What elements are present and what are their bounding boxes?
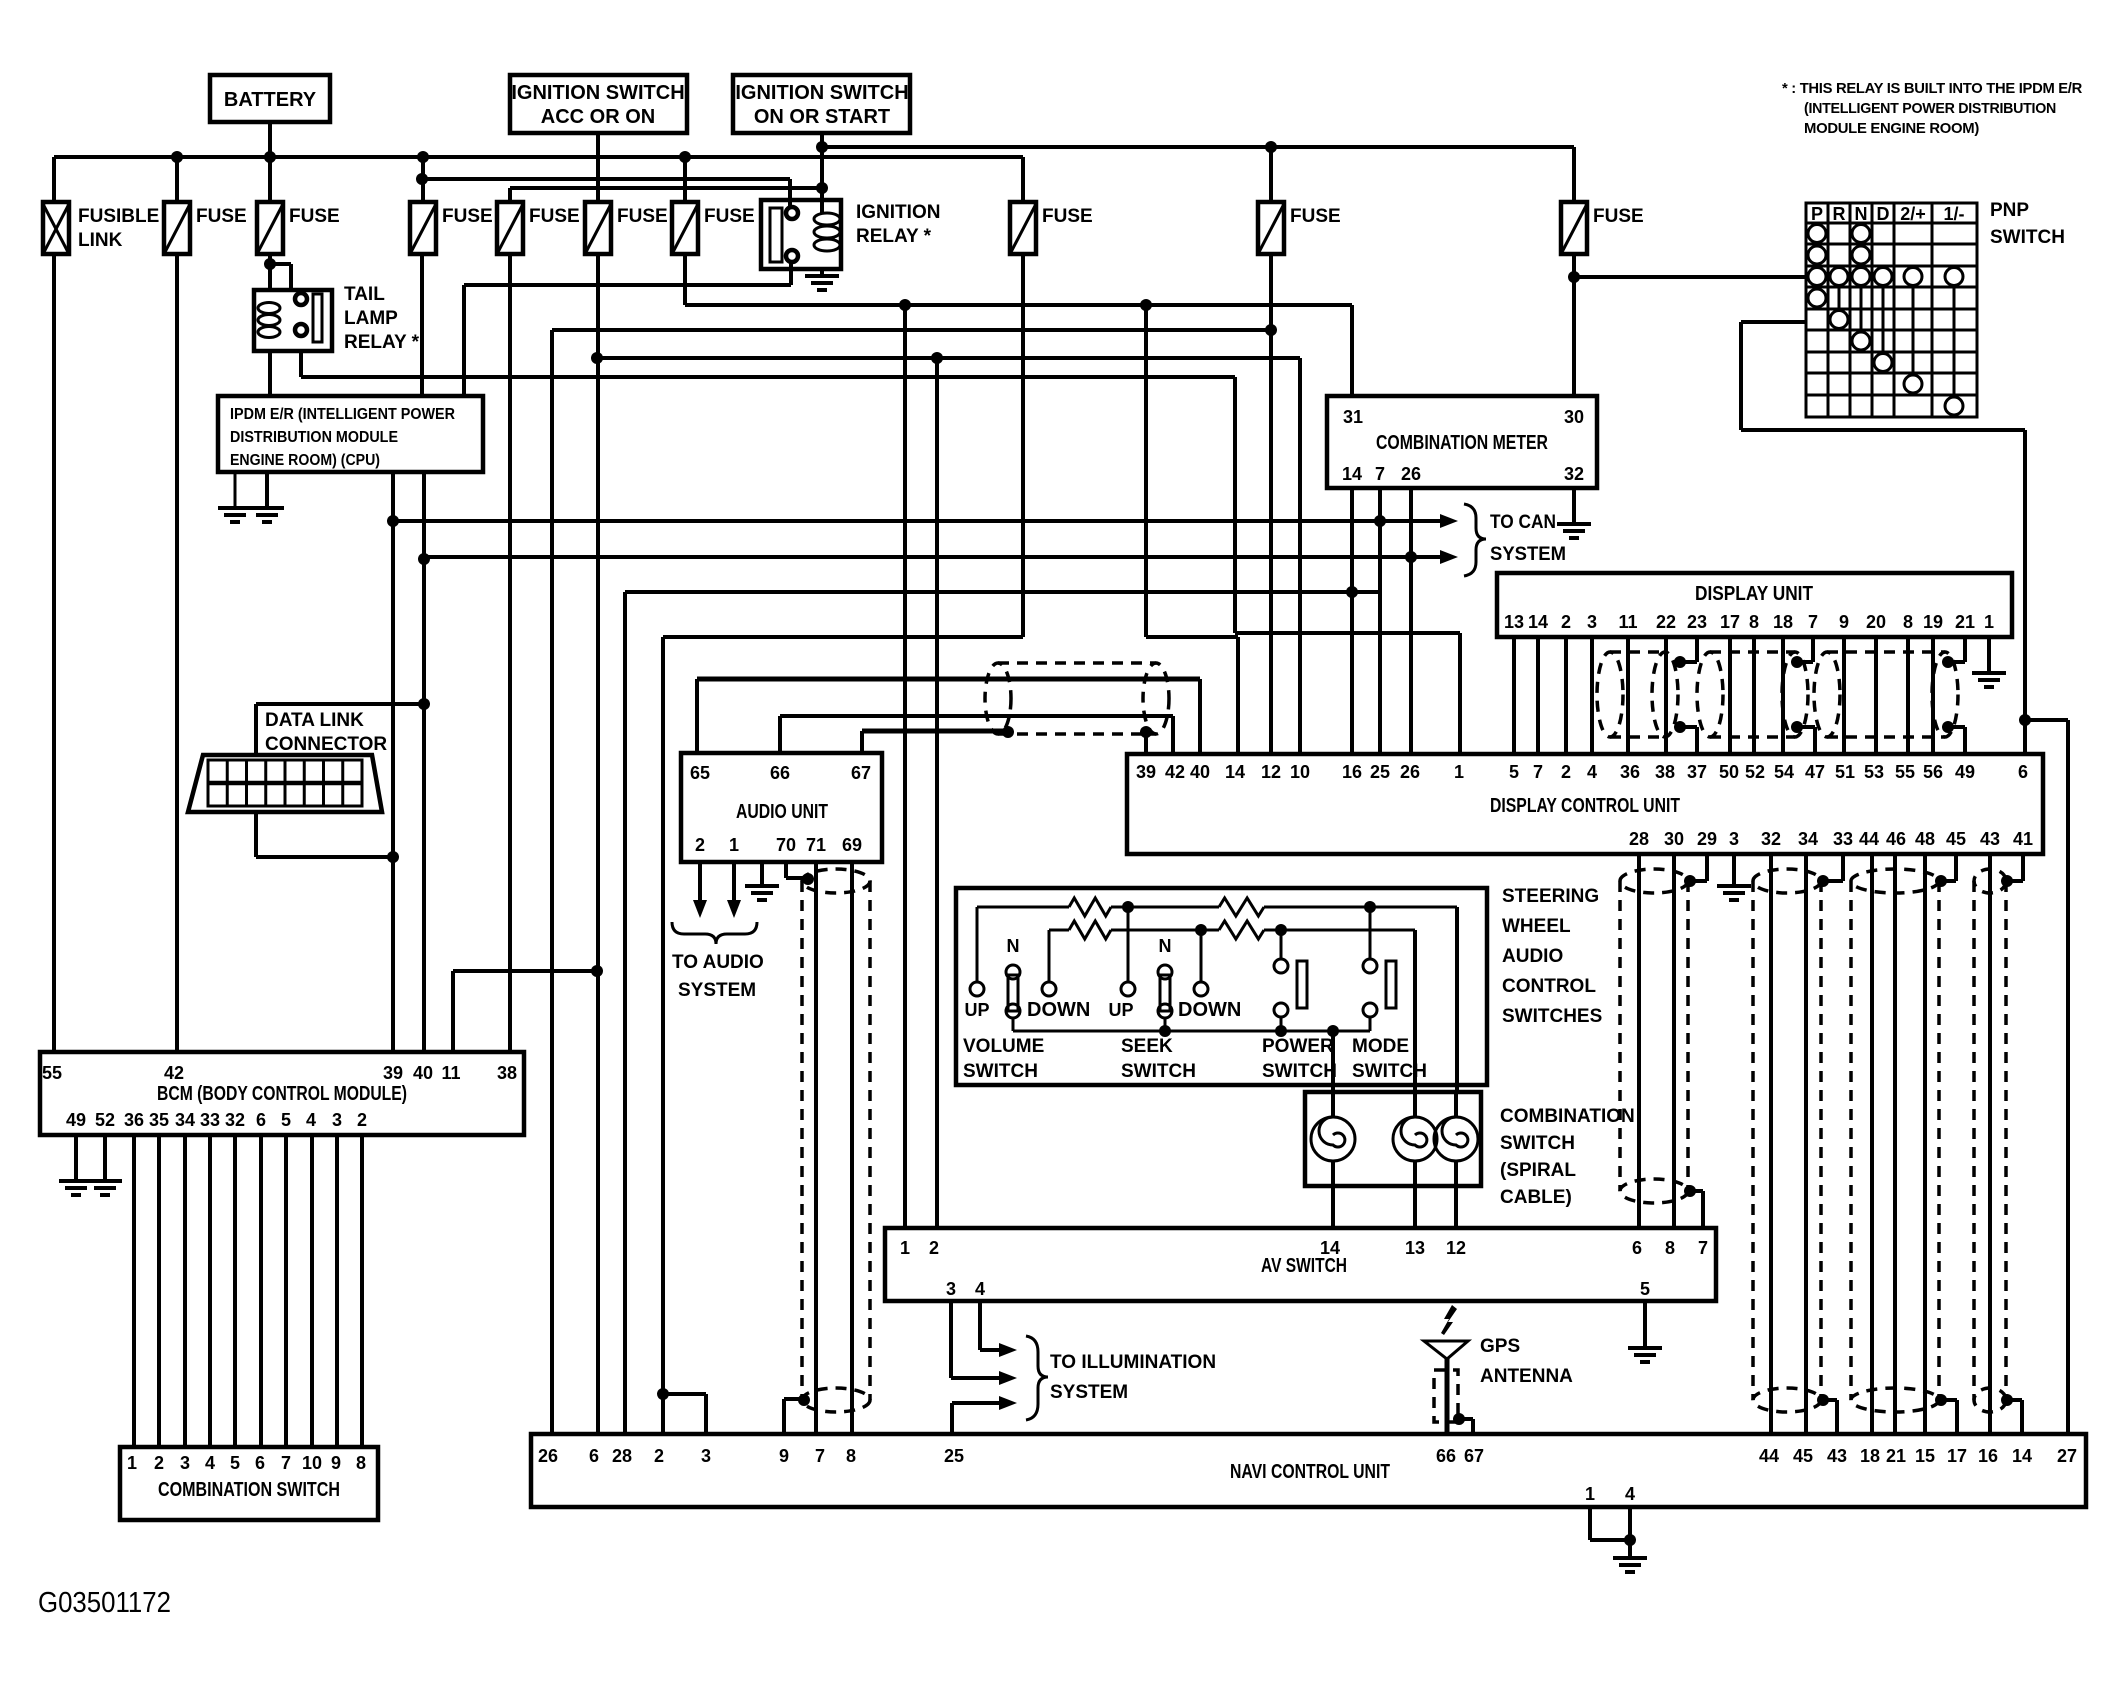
svg-text:CABLE): CABLE) <box>1500 1187 1572 1208</box>
svg-text:POWER: POWER <box>1262 1036 1334 1057</box>
svg-text:69: 69 <box>842 835 862 855</box>
ground: IPDM pin left <box>218 472 252 522</box>
svg-text:COMBINATION: COMBINATION <box>1500 1106 1635 1127</box>
svg-text:FUSE: FUSE <box>442 206 493 227</box>
wire: switch out to spiral 14 <box>1331 1031 1335 1092</box>
svg-text:2: 2 <box>654 1446 664 1466</box>
wire: audio 1 to audio system <box>727 862 741 918</box>
svg-text:28: 28 <box>1629 829 1649 849</box>
wire: fuse F6 net y305 (meter 31, AV 1, DCU 14) <box>685 254 1352 396</box>
svg-text:40: 40 <box>1190 762 1210 782</box>
shielded cable (audio to DCU) <box>985 663 1169 738</box>
svg-text:6: 6 <box>256 1110 266 1130</box>
svg-text:56: 56 <box>1923 762 1943 782</box>
wire: tail-relay net to DCU 1 <box>1235 377 1460 754</box>
wire: shield to DCU 39 <box>1144 732 1148 754</box>
svg-text:1: 1 <box>1984 612 1994 632</box>
svg-text:SWITCH: SWITCH <box>1121 1061 1196 1082</box>
svg-text:21: 21 <box>1955 612 1975 632</box>
svg-text:2/+: 2/+ <box>1900 204 1926 224</box>
wire: IPDM to BCM 40 (CAN L vertical) <box>418 472 430 1052</box>
BCM (body control module) <box>40 1052 524 1135</box>
svg-text:FUSE: FUSE <box>704 206 755 227</box>
svg-text:48: 48 <box>1915 829 1935 849</box>
shielded cable 2 (display 17,8,18 - DCU 50,52,54) <box>1697 637 1808 754</box>
combination meter <box>1327 396 1597 488</box>
svg-text:N: N <box>1855 204 1868 224</box>
steering wheel audio control switches <box>956 888 1487 1085</box>
wire: bus y188 ON/START to fuse510 <box>510 182 828 194</box>
ignition switch ACC OR ON <box>510 75 687 133</box>
svg-text:8: 8 <box>1665 1238 1675 1258</box>
svg-text:47: 47 <box>1805 762 1825 782</box>
svg-text:5: 5 <box>1509 762 1519 782</box>
svg-text:15: 15 <box>1915 1446 1935 1466</box>
ignition switch ON OR START <box>733 75 910 133</box>
svg-text:43: 43 <box>1980 829 2000 849</box>
wire: audio 70 to shield <box>786 862 814 885</box>
wire: PNP output to DCU 6 / NAVI 27 <box>1741 322 2068 1434</box>
combination switch (spiral cable) <box>1305 1092 1481 1228</box>
svg-text:12: 12 <box>1261 762 1281 782</box>
wire: relay output y285 to IPDM <box>464 262 791 396</box>
svg-text:TAIL: TAIL <box>344 284 385 305</box>
ground: BCM 52 <box>88 1135 122 1195</box>
ground: IPDM pin right <box>250 472 284 522</box>
ignition relay (built into IPDM) <box>761 179 940 269</box>
svg-text:23: 23 <box>1687 612 1707 632</box>
svg-text:FUSE: FUSE <box>617 206 668 227</box>
svg-text:33: 33 <box>1833 829 1853 849</box>
svg-text:52: 52 <box>1745 762 1765 782</box>
svg-text:27: 27 <box>2057 1446 2077 1466</box>
svg-text:37: 37 <box>1687 762 1707 782</box>
svg-text:30: 30 <box>1664 829 1684 849</box>
svg-text:FUSE: FUSE <box>529 206 580 227</box>
svg-text:54: 54 <box>1774 762 1794 782</box>
fuse F7 (to NAVI 2) <box>1010 157 1093 254</box>
fusible link <box>43 157 159 254</box>
wire: fusible link to BCM 55 <box>52 254 56 1052</box>
svg-text:SWITCHES: SWITCHES <box>1502 1006 1602 1027</box>
wire: fuse to tail lamp relay <box>264 254 291 290</box>
svg-text:DISTRIBUTION MODULE: DISTRIBUTION MODULE <box>230 429 398 446</box>
shielded cable 1 (display 11,22 - DCU 36,38) <box>1597 637 1678 754</box>
svg-text:26: 26 <box>1401 464 1421 484</box>
ground: display 1 <box>1972 637 2006 687</box>
svg-text:16: 16 <box>1342 762 1362 782</box>
svg-text:10: 10 <box>302 1453 322 1473</box>
svg-text:DOWN: DOWN <box>1027 999 1090 1021</box>
svg-text:66: 66 <box>1436 1446 1456 1466</box>
svg-text:AUDIO: AUDIO <box>1502 946 1563 967</box>
wire: ACC net vertical to NAVI 6 <box>591 254 603 1434</box>
svg-text:4: 4 <box>306 1110 316 1130</box>
svg-text:GPS: GPS <box>1480 1336 1520 1357</box>
wire: audio 2 to audio system <box>693 862 707 918</box>
battery <box>210 75 330 122</box>
svg-text:MODE: MODE <box>1352 1036 1409 1057</box>
svg-text:45: 45 <box>1946 829 1966 849</box>
svg-text:38: 38 <box>497 1063 517 1083</box>
shielded cable (audio 71/69 down to NAVI) <box>798 869 870 1412</box>
svg-text:1: 1 <box>900 1238 910 1258</box>
label: steering wheel audio control switches <box>1502 886 1602 1027</box>
svg-text:70: 70 <box>776 835 796 855</box>
svg-text:3: 3 <box>332 1110 342 1130</box>
svg-text:COMBINATION METER: COMBINATION METER <box>1376 432 1548 454</box>
svg-text:1: 1 <box>1585 1484 1595 1504</box>
wire: fuse F7 to NAVI 2 <box>657 254 1023 1434</box>
svg-text:LINK: LINK <box>78 230 123 251</box>
svg-text:3: 3 <box>1587 612 1597 632</box>
audio unit <box>681 753 882 862</box>
GPS coax shield <box>1434 1370 1473 1434</box>
svg-text:DISPLAY CONTROL UNIT: DISPLAY CONTROL UNIT <box>1490 795 1680 817</box>
wire: meter 14 to DCU 16 <box>1346 488 1358 754</box>
svg-text:SEEK: SEEK <box>1121 1036 1173 1057</box>
svg-text:SYSTEM: SYSTEM <box>1490 544 1566 565</box>
fuse F5 (ACC) <box>585 202 668 254</box>
ground: AV 5 <box>1628 1301 1662 1362</box>
svg-text:14: 14 <box>2012 1446 2032 1466</box>
svg-text:4: 4 <box>205 1453 215 1473</box>
wire: display 21 shield to DCU 49 <box>1942 637 1965 754</box>
wire: AV 2 feed <box>935 358 939 1228</box>
svg-text:13: 13 <box>1405 1238 1425 1258</box>
NAVI control unit <box>531 1434 2086 1507</box>
fuse F2 (to tail lamp relay) <box>257 157 340 254</box>
svg-text:5: 5 <box>230 1453 240 1473</box>
svg-text:45: 45 <box>1793 1446 1813 1466</box>
svg-text:6: 6 <box>2018 762 2028 782</box>
svg-text:17: 17 <box>1947 1446 1967 1466</box>
shielded cable D (DCU 43 - NAVI 16) <box>1974 854 2023 1434</box>
svg-text:WHEEL: WHEEL <box>1502 916 1571 937</box>
wire: DLC to CAN H <box>256 812 393 857</box>
svg-text:42: 42 <box>1165 762 1185 782</box>
svg-text:29: 29 <box>1697 829 1717 849</box>
wire: BCM 11 feed <box>453 971 597 1052</box>
svg-text:7: 7 <box>1375 464 1385 484</box>
svg-text:65: 65 <box>690 763 710 783</box>
ground: DCU 3 <box>1717 854 1751 900</box>
GPS antenna <box>1424 1305 1573 1434</box>
svg-text:NAVI CONTROL UNIT: NAVI CONTROL UNIT <box>1230 1461 1390 1483</box>
svg-text:1: 1 <box>127 1453 137 1473</box>
svg-text:36: 36 <box>124 1110 144 1130</box>
svg-text:ANTENNA: ANTENNA <box>1480 1366 1573 1387</box>
wire: DLC to CAN L <box>256 704 424 755</box>
fuse F1 (to BCM 42) <box>164 157 247 254</box>
svg-text:42: 42 <box>164 1063 184 1083</box>
svg-text:17: 17 <box>1720 612 1740 632</box>
svg-text:LAMP: LAMP <box>344 308 398 329</box>
svg-text:SWITCH: SWITCH <box>1262 1061 1337 1082</box>
wire: audio 69 to NAVI 8 <box>850 862 854 1434</box>
svg-text:IGNITION SWITCH: IGNITION SWITCH <box>735 82 908 104</box>
svg-text:7: 7 <box>1808 612 1818 632</box>
shielded cable B (DCU 32,34 - NAVI 44,45) <box>1753 854 1843 1434</box>
svg-text:N: N <box>1159 936 1172 956</box>
shielded cable A (DCU 28,30 - AV 6,8) <box>1620 854 1707 1228</box>
wire: bus y179 to ignition relay <box>416 173 790 185</box>
svg-text:UP: UP <box>1108 1000 1133 1020</box>
svg-text:49: 49 <box>1955 762 1975 782</box>
svg-text:7: 7 <box>815 1446 825 1466</box>
svg-text:32: 32 <box>225 1110 245 1130</box>
svg-text:SWITCH: SWITCH <box>963 1061 1038 1082</box>
svg-text:8: 8 <box>846 1446 856 1466</box>
svg-text:53: 53 <box>1864 762 1884 782</box>
svg-text:STEERING: STEERING <box>1502 886 1599 907</box>
svg-text:ON OR START: ON OR START <box>754 106 890 128</box>
svg-text:67: 67 <box>1464 1446 1484 1466</box>
svg-text:66: 66 <box>770 763 790 783</box>
wire: display 23 shield to DCU 37 <box>1674 637 1697 754</box>
ground: audio unit <box>745 862 779 900</box>
svg-text:CONNECTOR: CONNECTOR <box>265 734 387 755</box>
svg-text:BATTERY: BATTERY <box>224 89 317 111</box>
svg-text:43: 43 <box>1827 1446 1847 1466</box>
svg-text:4: 4 <box>975 1279 985 1299</box>
svg-text:ENGINE ROOM) (CPU): ENGINE ROOM) (CPU) <box>230 452 380 469</box>
svg-text:N: N <box>1007 936 1020 956</box>
wire: audio 66 to DCU 42 <box>780 716 1173 754</box>
svg-text:5: 5 <box>1640 1279 1650 1299</box>
svg-text:38: 38 <box>1655 762 1675 782</box>
wire: fuse F9 to meter 30 and PNP <box>1568 254 1806 396</box>
shielded cable 3 (display 9,20,8,19 - DCU 51,53,55,56) <box>1814 637 1958 754</box>
fuse F6 (to meter 31) <box>672 157 755 254</box>
label: combination switch spiral cable <box>1500 1106 1635 1208</box>
svg-text:9: 9 <box>779 1446 789 1466</box>
wire: AV 1 feed <box>903 305 907 1228</box>
svg-text:ACC OR ON: ACC OR ON <box>541 106 655 128</box>
svg-text:COMBINATION SWITCH: COMBINATION SWITCH <box>158 1479 340 1501</box>
svg-text:2: 2 <box>1561 762 1571 782</box>
wire: display 7 shield to DCU 47 <box>1791 637 1815 754</box>
note: relay built into IPDM E/R <box>1782 80 2082 137</box>
wire: ignition ON/START drop <box>820 133 824 205</box>
wire: NAVI 2-3 jumper <box>663 1394 706 1434</box>
svg-text:33: 33 <box>200 1110 220 1130</box>
svg-text:IPDM E/R (INTELLIGENT POWER: IPDM E/R (INTELLIGENT POWER <box>230 406 455 423</box>
svg-text:4: 4 <box>1587 762 1597 782</box>
svg-text:46: 46 <box>1886 829 1906 849</box>
svg-text:26: 26 <box>538 1446 558 1466</box>
figure number G03501172 <box>38 1587 171 1619</box>
svg-text:DATA LINK: DATA LINK <box>265 710 364 731</box>
svg-text:VOLUME: VOLUME <box>963 1036 1044 1057</box>
svg-text:3: 3 <box>180 1453 190 1473</box>
svg-text:BCM (BODY CONTROL MODULE): BCM (BODY CONTROL MODULE) <box>157 1083 407 1105</box>
svg-text:44: 44 <box>1859 829 1879 849</box>
svg-text:FUSE: FUSE <box>1290 206 1341 227</box>
svg-text:SYSTEM: SYSTEM <box>1050 1382 1128 1403</box>
wire: AV 3 to illumination <box>951 1301 1017 1385</box>
svg-text:CONTROL: CONTROL <box>1502 976 1596 997</box>
wire: NAVI 1-4 jumper <box>1590 1507 1636 1558</box>
svg-text:RELAY *: RELAY * <box>856 226 932 247</box>
svg-text:36: 36 <box>1620 762 1640 782</box>
AV switch <box>885 1228 1716 1301</box>
wire: switch out to spiral 12 <box>1455 907 1459 1092</box>
svg-text:6: 6 <box>589 1446 599 1466</box>
svg-text:FUSE: FUSE <box>196 206 247 227</box>
shielded cable C (DCU 44,46,48 - NAVI 18,21,15) <box>1851 854 1957 1434</box>
PNP switch grid <box>1806 200 2065 417</box>
svg-text:18: 18 <box>1773 612 1793 632</box>
svg-text:19: 19 <box>1923 612 1943 632</box>
svg-text:34: 34 <box>1798 829 1818 849</box>
svg-text:2: 2 <box>154 1453 164 1473</box>
svg-text:8: 8 <box>1749 612 1759 632</box>
svg-text:FUSE: FUSE <box>289 206 340 227</box>
svg-text:G03501172: G03501172 <box>38 1587 171 1619</box>
svg-text:7: 7 <box>1698 1238 1708 1258</box>
wire: audio 67 shield drain <box>862 731 1008 753</box>
fuse F9 (to meter 30 / PNP) <box>1561 147 1644 254</box>
wire: fuse F8 to DCU 12 and NAVI 26 <box>552 254 1277 1434</box>
data link connector <box>188 710 387 812</box>
svg-text:22: 22 <box>1656 612 1676 632</box>
brace and label TO ILLUMINATION SYSTEM <box>1026 1336 1216 1420</box>
wire: audio 71 to NAVI 7 <box>814 862 818 1434</box>
svg-text:25: 25 <box>944 1446 964 1466</box>
wire: fuse F4 to BCM 38 <box>508 254 512 1052</box>
svg-text:(SPIRAL: (SPIRAL <box>1500 1160 1576 1181</box>
wire: y358 line (AV 2, DCU 10) <box>597 352 1300 754</box>
svg-text:RELAY *: RELAY * <box>344 332 420 353</box>
svg-text:2: 2 <box>695 835 705 855</box>
wire: CAN L line y557 <box>424 550 1458 564</box>
svg-text:39: 39 <box>383 1063 403 1083</box>
svg-text:SWITCH: SWITCH <box>1990 227 2065 248</box>
ground: meter pin 32 <box>1557 488 1591 538</box>
svg-text:67: 67 <box>851 763 871 783</box>
svg-text:14: 14 <box>1320 1238 1340 1258</box>
brace and label TO CAN SYSTEM <box>1464 504 1566 576</box>
display unit <box>1497 573 2012 637</box>
svg-text:32: 32 <box>1564 464 1584 484</box>
svg-text:8: 8 <box>356 1453 366 1473</box>
wire: switch out to spiral 13 <box>1413 930 1417 1092</box>
svg-text:UP: UP <box>964 1000 989 1020</box>
wire: AV 4 to illumination <box>980 1301 1017 1357</box>
wire: audio 65 to DCU 40 <box>697 679 1200 754</box>
svg-text:26: 26 <box>1400 762 1420 782</box>
svg-text:13: 13 <box>1504 612 1524 632</box>
svg-text:3: 3 <box>701 1446 711 1466</box>
wire: meter 26 to DCU 26 <box>1409 488 1413 754</box>
svg-text:21: 21 <box>1886 1446 1906 1466</box>
IPDM E/R box <box>218 254 483 472</box>
svg-text:P: P <box>1811 204 1823 224</box>
svg-text:11: 11 <box>1618 612 1637 632</box>
wire: battery bus y157 <box>54 122 1023 163</box>
svg-text:TO ILLUMINATION: TO ILLUMINATION <box>1050 1352 1216 1373</box>
svg-text:10: 10 <box>1290 762 1310 782</box>
svg-text:14: 14 <box>1528 612 1548 632</box>
svg-text:7: 7 <box>1533 762 1543 782</box>
svg-text:28: 28 <box>612 1446 632 1466</box>
brace and label TO AUDIO SYSTEM <box>672 922 764 1001</box>
svg-text:20: 20 <box>1866 612 1886 632</box>
svg-text:5: 5 <box>281 1110 291 1130</box>
svg-text:51: 51 <box>1835 762 1855 782</box>
svg-text:2: 2 <box>1561 612 1571 632</box>
svg-text:DOWN: DOWN <box>1178 999 1241 1021</box>
svg-text:41: 41 <box>2013 829 2033 849</box>
svg-text:IGNITION SWITCH: IGNITION SWITCH <box>511 82 684 104</box>
svg-text:14: 14 <box>1342 464 1362 484</box>
wire: tail relay contact y377 line <box>301 351 1235 377</box>
svg-text:SYSTEM: SYSTEM <box>678 980 756 1001</box>
svg-text:1: 1 <box>1454 762 1464 782</box>
svg-text:AUDIO UNIT: AUDIO UNIT <box>736 801 828 823</box>
display control unit <box>1127 754 2043 854</box>
wire: meter 7 to DCU 25 <box>1378 488 1382 754</box>
wire: IPDM to BCM 39 (CAN H vertical) <box>387 472 399 1052</box>
wire: ignition ON/START bus y147 <box>816 141 1574 153</box>
svg-text:55: 55 <box>1895 762 1915 782</box>
wire: CAN-H branch NAVI 28 / DCU 25 y592 <box>625 592 1380 1434</box>
wire: fuse F1 to BCM 42 <box>175 254 179 1052</box>
svg-text:16: 16 <box>1978 1446 1998 1466</box>
svg-text:49: 49 <box>66 1110 86 1130</box>
wire: CAN H line y521 <box>393 514 1458 528</box>
svg-text:AV SWITCH: AV SWITCH <box>1261 1255 1347 1277</box>
svg-text:IGNITION: IGNITION <box>856 202 940 223</box>
svg-text:3: 3 <box>1729 829 1739 849</box>
svg-text:9: 9 <box>1839 612 1849 632</box>
svg-text:3: 3 <box>946 1279 956 1299</box>
svg-text:12: 12 <box>1446 1238 1466 1258</box>
svg-text:(INTELLIGENT POWER DISTRIBUTIO: (INTELLIGENT POWER DISTRIBUTION <box>1804 100 2056 117</box>
svg-text:1/-: 1/- <box>1943 204 1964 224</box>
wire: pin31-net branch to DCU 14 <box>1146 305 1238 754</box>
fuse F4 (to BCM 38) <box>497 188 580 254</box>
wires: BCM to combination switch <box>134 1135 362 1447</box>
svg-text:25: 25 <box>1370 762 1390 782</box>
fuse F8 (to DCU 12) <box>1258 147 1341 254</box>
svg-text:40: 40 <box>413 1063 433 1083</box>
svg-text:D: D <box>1877 204 1890 224</box>
svg-text:50: 50 <box>1719 762 1739 782</box>
svg-text:1: 1 <box>729 835 739 855</box>
svg-text:32: 32 <box>1761 829 1781 849</box>
ground: NAVI 1/4 <box>1613 1558 1647 1572</box>
svg-text:4: 4 <box>1625 1484 1635 1504</box>
svg-text:PNP: PNP <box>1990 200 2029 221</box>
svg-text:44: 44 <box>1759 1446 1779 1466</box>
svg-text:39: 39 <box>1136 762 1156 782</box>
svg-text:35: 35 <box>149 1110 169 1130</box>
svg-text:14: 14 <box>1225 762 1245 782</box>
wire: NAVI 25 to illumination <box>952 1396 1017 1434</box>
tail lamp relay <box>254 284 420 353</box>
svg-text:2: 2 <box>929 1238 939 1258</box>
svg-text:DISPLAY UNIT: DISPLAY UNIT <box>1695 583 1813 605</box>
svg-text:11: 11 <box>441 1063 460 1083</box>
wire: NAVI 9 to shield <box>784 1399 804 1434</box>
svg-text:FUSE: FUSE <box>1593 206 1644 227</box>
wires: display 13,14,2,3 to DCU 5,7,2,4 <box>1514 637 1592 754</box>
svg-text:6: 6 <box>1632 1238 1642 1258</box>
wire: tail relay coil to IPDM <box>268 351 272 396</box>
svg-text:31: 31 <box>1343 407 1363 427</box>
